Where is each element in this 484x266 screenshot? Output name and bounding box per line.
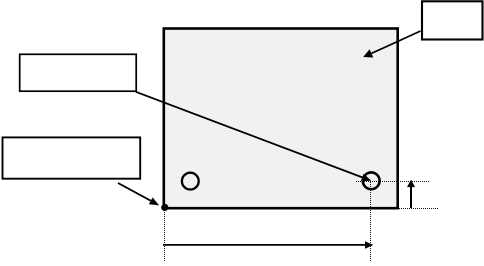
callout box top-right	[422, 1, 483, 39]
left hole circle	[182, 173, 199, 190]
dotted centerline vertical below right hole	[370, 182, 372, 261]
horizontal dimension arrow	[163, 241, 373, 249]
right hole circle	[363, 172, 380, 189]
leader arrow from bottom-left box to corner datum	[118, 183, 159, 205]
callout box top-left	[20, 54, 137, 91]
dotted centerline horizontal through right hole	[356, 181, 430, 183]
dotted extension line below plate bottom-left corner	[164, 210, 166, 261]
leader arrow from top-left box to right hole	[136, 92, 371, 181]
callout box bottom-left	[3, 137, 141, 178]
leader arrow from top-right box into plate	[363, 31, 420, 58]
gray plate rectangle	[164, 29, 398, 209]
dotted extension line at plate bottom right	[399, 208, 438, 210]
datum dot at plate bottom-left corner	[161, 204, 168, 211]
vertical dimension arrow	[407, 180, 415, 208]
